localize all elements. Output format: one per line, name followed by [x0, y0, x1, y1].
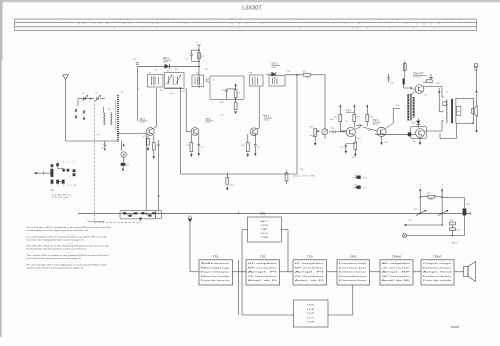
svg-text:7: 7	[63, 185, 64, 187]
svg-text:S2: S2	[167, 71, 169, 73]
transistor TS5	[377, 127, 386, 136]
svg-text:SK3: SK3	[466, 204, 470, 206]
wire TS4 base bias	[340, 128, 346, 131]
band switch SK1 breakout	[34, 163, 76, 184]
svg-text:The switch SK1 is drawn in the: The switch SK1 is drawn in the position …	[27, 254, 110, 257]
svg-text:LPD: LPD	[307, 305, 315, 307]
svg-text:R35: R35	[352, 157, 355, 159]
wire aux bus	[404, 224, 442, 227]
svg-text:TSP: TSP	[307, 313, 316, 315]
wire TS5 collector to driver transformer	[385, 109, 400, 130]
svg-text:2: 2	[57, 162, 58, 164]
wire in AGC box	[227, 89, 237, 100]
wire bus to lower box	[238, 213, 240, 260]
svg-text:S5: S5	[121, 92, 123, 94]
wire TS1 down to switch	[145, 134, 147, 211]
svg-text:C30: C30	[390, 83, 393, 85]
antenna	[63, 75, 69, 141]
svg-text:ZF-Verstärker: ZF-Verstärker	[248, 275, 278, 278]
note bracket	[88, 220, 104, 222]
svg-text:1: 1	[51, 162, 52, 164]
dial tick marks and numbers	[60, 18, 465, 30]
svg-text:R16: R16	[220, 102, 223, 104]
block connector wires	[233, 271, 464, 273]
svg-text:R40: R40	[436, 83, 439, 85]
svg-text:TS 1: TS 1	[140, 118, 146, 121]
volume control circle	[322, 129, 328, 139]
svg-text:Mengtrap: Mengtrap	[201, 266, 233, 269]
svg-text:Output stage: Output stage	[423, 262, 453, 265]
ferrite rod antenna	[116, 95, 118, 142]
switch label SK1	[50, 190, 55, 192]
electrolytic C16	[354, 174, 366, 180]
svg-text:C36: C36	[384, 142, 387, 144]
svg-text:Étage mélangeur: Étage mélangeur	[201, 271, 230, 274]
GR1 block box	[248, 217, 282, 242]
svg-text:R12: R12	[334, 117, 337, 119]
svg-text:Der Schalter SK1 ist in der St: Der Schalter SK1 ist in der Stellung FM …	[27, 245, 110, 248]
svg-text:R33: R33	[368, 130, 371, 132]
pickup socket	[402, 234, 406, 238]
svg-text:R44: R44	[429, 199, 432, 201]
svg-text:OA79: OA79	[272, 66, 277, 69]
ground trimmer C4	[83, 116, 86, 121]
label GR2 diode	[272, 63, 281, 69]
wire rod tap to TS1 base	[118, 133, 147, 135]
svg-text:TS 5: TS 5	[373, 119, 379, 122]
svg-text:C40: C40	[408, 220, 411, 222]
label TS3	[264, 115, 272, 121]
block TS2	[246, 255, 280, 285]
diode GR2	[266, 72, 276, 76]
svg-text:3: 3	[63, 162, 64, 164]
wire tone to switch	[442, 198, 464, 208]
svg-text:Paso de mezcla: Paso de mezcla	[201, 280, 232, 282]
svg-text:Demodulator: Demodulator	[339, 275, 368, 278]
label TRA66	[451, 325, 460, 329]
oscillator coil L2	[111, 113, 113, 126]
svg-text:gram. / P.U. 750: gram. / P.U. 750	[293, 176, 316, 178]
svg-text:Ampl. FI: Ampl. FI	[295, 271, 325, 274]
svg-text:R19: R19	[427, 193, 430, 195]
resistor R16	[403, 78, 405, 88]
resistor R6 TS3 emitter	[246, 134, 249, 157]
resistor R3 TS1 emitter	[147, 135, 150, 151]
svg-text:El conmutador SK1 está dibujad: El conmutador SK1 está dibujado en la po…	[27, 263, 108, 266]
resistor R5 TS2 emitter	[190, 134, 193, 157]
svg-text:Ampl. BF: Ampl. BF	[382, 271, 413, 274]
label TS2	[205, 118, 213, 124]
svg-text:C1: C1	[82, 93, 84, 95]
loudspeaker box	[456, 98, 474, 123]
svg-text:S9: S9	[175, 69, 177, 71]
wire transformer center tap	[438, 88, 444, 112]
capacitor C8 TS2 emitter	[198, 134, 201, 156]
svg-text:R46: R46	[412, 141, 415, 143]
svg-text:C5: C5	[101, 148, 103, 150]
wire osc branch	[121, 141, 124, 152]
resistor R8 below AGC box	[234, 102, 237, 114]
IF transformer T2	[165, 71, 185, 89]
svg-text:————: ————	[66, 252, 73, 254]
svg-text:R14: R14	[370, 117, 373, 119]
svg-text:desde la parte posterior del a: desde la parte posterior del aparato (vé…	[27, 266, 85, 269]
resistor R21	[450, 225, 460, 236]
capacitor C13 TS4 emitter	[340, 144, 356, 154]
svg-text:Détecteur: Détecteur	[339, 271, 368, 274]
svg-text:5: 5	[73, 162, 74, 164]
svg-text:AFC: AFC	[261, 220, 269, 223]
resistor R20	[450, 220, 456, 225]
svg-text:R24: R24	[230, 185, 233, 187]
wire volume feed	[324, 75, 326, 129]
brace coupling	[206, 78, 209, 83]
svg-text:Detector: Detector	[339, 279, 368, 282]
svg-text:R11: R11	[310, 127, 313, 129]
wire AGC return vertical	[296, 75, 298, 174]
svg-text:MF-versterker: MF-versterker	[295, 266, 325, 269]
wire pot wiper	[314, 131, 320, 146]
svg-text:TS4+5: TS4+5	[392, 255, 401, 259]
trimmer C4	[82, 110, 86, 114]
wire lower box right	[328, 285, 353, 315]
wire bias arrow TS6	[404, 87, 413, 89]
label GR1	[163, 57, 172, 63]
resistor R14	[366, 105, 373, 127]
svg-text:C21: C21	[182, 91, 185, 93]
driver transformer T7	[407, 94, 415, 121]
svg-text:C13: C13	[340, 147, 343, 149]
wire TS7 collector to transformer	[424, 121, 443, 132]
svg-text:NF-Verstärker: NF-Verstärker	[382, 275, 411, 278]
svg-text:————: ————	[66, 261, 73, 263]
svg-text:S15: S15	[270, 73, 273, 75]
loudspeaker icon	[472, 106, 478, 117]
svg-text:S20: S20	[396, 105, 399, 107]
label TS4	[346, 110, 354, 113]
svg-text:Detector: Detector	[339, 262, 368, 265]
switch block contact	[463, 208, 467, 235]
svg-text:C2: C2	[95, 93, 97, 95]
svg-text:2 x OC72: 2 x OC72	[413, 77, 421, 79]
variable capacitor C2	[95, 95, 101, 101]
switch note text	[52, 194, 73, 199]
electrolytic C15	[375, 132, 416, 136]
svg-text:6: 6	[57, 185, 58, 187]
svg-text:R26: R26	[306, 78, 309, 80]
svg-text:R7: R7	[238, 93, 240, 95]
svg-text:IF amplifier: IF amplifier	[295, 263, 325, 265]
svg-text:OC45: OC45	[205, 122, 210, 124]
tuning gang dashed linkage	[95, 100, 140, 223]
wire arrow feed 2	[441, 189, 443, 226]
transistor TS4	[346, 127, 355, 136]
svg-text:b: b	[442, 184, 443, 186]
switch pin numbers top	[51, 162, 74, 164]
wire TS4 to TS5	[355, 127, 377, 132]
wire antenna to ferrite rod	[66, 140, 120, 142]
svg-text:C18: C18	[457, 230, 460, 232]
svg-text:GR 2: GR 2	[272, 63, 278, 66]
wire TS6 collector loop	[423, 87, 443, 98]
svg-text:ZF-Verstärker: ZF-Verstärker	[295, 275, 325, 278]
svg-text:rear side of the apparatus (se: rear side of the apparatus (see also pag…	[27, 257, 83, 260]
wire detector output	[285, 74, 325, 76]
volume potentiometer R11	[310, 127, 320, 138]
svg-text:Ampl. de FI: Ampl. de FI	[295, 279, 325, 282]
svg-text:LLG: LLG	[307, 317, 315, 319]
svg-text:TS3: TS3	[307, 255, 313, 259]
svg-text:C28: C28	[300, 169, 303, 171]
diode GR3	[412, 119, 421, 128]
svg-text:4,7k: 4,7k	[186, 145, 190, 147]
wire TS3 collector	[257, 87, 259, 129]
svg-text:TS 4: TS 4	[346, 110, 352, 113]
svg-text:1k: 1k	[345, 121, 347, 123]
svg-text:OA79: OA79	[163, 60, 168, 63]
wire lower box left	[239, 260, 294, 315]
svg-text:C11: C11	[331, 128, 334, 130]
svg-text:S7: S7	[155, 70, 157, 72]
svg-text:0,1: 0,1	[143, 136, 146, 138]
IF transformer T5	[250, 75, 264, 86]
svg-text:C16: C16	[363, 178, 366, 180]
svg-text:0,1: 0,1	[258, 147, 261, 149]
block TS6+7	[421, 255, 454, 285]
transistor TS2	[191, 128, 199, 136]
svg-text:TS6+TS7: TS6+TS7	[413, 73, 424, 76]
svg-text:Ampl. FI: Ampl. FI	[248, 271, 278, 274]
svg-text:MF-versterker: MF-versterker	[248, 266, 278, 269]
label TS6 TS7	[413, 73, 428, 79]
label GR1 block	[260, 211, 266, 215]
transistor TS7	[416, 129, 425, 138]
resistor R17	[423, 78, 432, 84]
svg-text:R3: R3	[137, 89, 139, 91]
svg-text:CAP: CAP	[261, 228, 270, 231]
resistor R19 tone	[420, 193, 442, 198]
resistor R7 in AGC box	[234, 83, 240, 102]
svg-text:SK2: SK2	[414, 209, 417, 211]
AGC network box	[210, 76, 244, 99]
output transformer T8	[443, 99, 453, 124]
svg-text:————: ————	[66, 233, 73, 235]
svg-text:10: 10	[74, 185, 76, 187]
svg-text:TS1: TS1	[213, 255, 219, 259]
transistor TS3	[250, 128, 258, 136]
svg-text:GR1: GR1	[260, 211, 266, 215]
capacitor C7	[186, 50, 200, 61]
dial scale lines	[14, 19, 477, 31]
page edge top	[0, 0, 500, 2]
capacitor C5	[101, 141, 106, 150]
wire bias down to switch	[157, 140, 160, 210]
svg-text:OC45: OC45	[264, 119, 269, 121]
svg-text:TS 2: TS 2	[205, 118, 211, 121]
supply rail vertical	[196, 42, 201, 89]
svg-text:Eindversterker: Eindversterker	[423, 266, 452, 269]
svg-text:R12: R12	[126, 165, 129, 167]
wire TS6 base from transformer	[413, 89, 416, 90]
wire TS5 emitter	[380, 136, 383, 145]
capacitor C11 coupling	[329, 128, 347, 133]
svg-text:R8: R8	[205, 69, 207, 71]
fuse VL1	[403, 61, 406, 79]
wire AGC junction	[165, 87, 181, 174]
oscillator circle	[121, 152, 128, 163]
switch contact SK2b	[438, 210, 449, 216]
block speaker symbol	[464, 262, 476, 282]
capacitor C10 in AGC box	[222, 89, 228, 100]
svg-text:39p: 39p	[170, 93, 173, 95]
battery plug	[474, 64, 477, 70]
svg-text:Ampl. de BF: Ampl. de BF	[382, 279, 412, 282]
svg-text:C10: C10	[222, 90, 225, 92]
misc component labels	[82, 69, 470, 222]
svg-text:8: 8	[68, 185, 69, 187]
band switch assembly SK1 main	[120, 210, 165, 221]
svg-text:L3X30T: L3X30T	[242, 5, 262, 11]
svg-text:Le commutateur SK1 est dessiné: Le commutateur SK1 est dessiné dans la p…	[27, 235, 108, 238]
wire pickup	[407, 235, 465, 236]
wire right speaker connection	[475, 70, 478, 133]
block GR2	[337, 255, 370, 285]
svg-text:Rückseite des Gerätes gesehen: Rückseite des Gerätes gesehen (siehe auc…	[27, 248, 88, 251]
label schakelaar	[452, 242, 459, 244]
svg-text:LF-versterker: LF-versterker	[382, 266, 411, 269]
diode GR1	[165, 64, 170, 69]
svg-text:GR2: GR2	[350, 255, 357, 259]
svg-text:GR 1: GR 1	[163, 57, 169, 60]
wire TS2 base	[186, 88, 191, 132]
svg-text:S13: S13	[249, 73, 252, 75]
svg-text:S11: S11	[196, 73, 199, 75]
svg-text:b4x: b4x	[457, 111, 460, 113]
svg-text:R30: R30	[330, 119, 333, 121]
svg-text:R13: R13	[357, 117, 360, 119]
main bus wire	[78, 212, 471, 215]
page edge left	[0, 0, 2, 337]
transistor TS1	[146, 128, 154, 136]
ground trimmer C3	[75, 115, 78, 120]
wire TS7 emitter down	[419, 137, 422, 145]
svg-text:4,7k: 4,7k	[241, 145, 245, 147]
resistor R4	[152, 135, 155, 159]
resistor R2	[198, 53, 205, 59]
switch contact SK2a	[414, 209, 427, 216]
svg-text:l'arrière de l'appareil (voir: l'arrière de l'appareil (voir aussi page…	[27, 239, 86, 241]
svg-text:5: 5	[51, 185, 52, 187]
resistor R12	[334, 105, 342, 129]
svg-text:KLG: KLG	[261, 233, 269, 235]
capacitor C14	[387, 74, 390, 82]
svg-text:7.-10. Pos. gedr.: 7.-10. Pos. gedr.	[52, 197, 70, 199]
block TS4+5	[380, 255, 413, 285]
svg-text:S4: S4	[108, 109, 110, 111]
svg-text:R20: R20	[450, 220, 453, 222]
capacitor C12	[356, 124, 363, 126]
svg-text:achterzijde van het apparaat (: achterzijde van het apparaat (zie ook bl…	[27, 229, 90, 232]
svg-text:TS2: TS2	[260, 255, 266, 259]
svg-text:De schakelaar SK1 is getekend: De schakelaar SK1 is getekend in de stan…	[27, 226, 112, 229]
svg-text:OC44: OC44	[140, 122, 145, 124]
svg-text:LFB: LFB	[307, 309, 316, 311]
svg-text:AF amplifier: AF amplifier	[382, 262, 411, 265]
variable capacitor C1	[82, 95, 88, 101]
svg-text:Paso de salida: Paso de salida	[423, 280, 453, 282]
svg-text:HF amplifier: HF amplifier	[248, 263, 278, 265]
svg-text:0,1: 0,1	[201, 147, 204, 149]
resistor R15 TS4 emitter	[354, 136, 357, 157]
wire AGC rail top	[138, 66, 200, 121]
svg-text:R9: R9	[303, 72, 305, 74]
svg-text:Ampl. de FI: Ampl. de FI	[248, 279, 278, 282]
svg-text:C25: C25	[287, 71, 290, 73]
TS7 feedback loop	[410, 126, 426, 138]
wire tuning top	[78, 98, 105, 106]
svg-text:TS6+7: TS6+7	[433, 255, 442, 259]
trimmer C3	[74, 109, 78, 113]
block TS1	[199, 255, 233, 285]
svg-text:Mischstufe: Mischstufe	[201, 275, 232, 278]
svg-text:————: ————	[66, 243, 73, 245]
svg-text:Mixer: Mixer	[201, 263, 232, 265]
svg-text:9: 9	[71, 185, 72, 187]
svg-text:4: 4	[68, 162, 69, 164]
svg-text:C17: C17	[363, 188, 366, 190]
junction dots on bus	[146, 213, 240, 215]
resistor R18 vertical mid	[285, 170, 316, 184]
wire arrow feed 1	[419, 189, 421, 215]
wire GR1 left connector	[242, 230, 248, 315]
svg-text:Ampl. final: Ampl. final	[423, 271, 453, 274]
lower block box	[294, 300, 329, 327]
svg-text:GR3: GR3	[412, 123, 416, 125]
svg-text:S1: S1	[149, 73, 151, 75]
svg-text:TGM: TGM	[261, 237, 269, 239]
svg-text:AC126: AC126	[373, 122, 379, 125]
oscillator coil L1	[104, 107, 106, 125]
service notes text	[27, 226, 112, 269]
block antenna symbol	[188, 216, 199, 272]
svg-text:TRA66: TRA66	[451, 325, 460, 329]
capacitor C9 TS3 emitter	[254, 135, 257, 157]
label TS5	[373, 119, 381, 125]
capacitor C6	[133, 59, 139, 64]
detector transformer box	[269, 76, 285, 87]
ground symbol near TS6	[429, 74, 433, 80]
svg-text:Endverstärker: Endverstärker	[423, 275, 452, 278]
svg-text:C33: C33	[357, 138, 360, 140]
resistor R9	[303, 72, 311, 77]
electrolytic C17	[354, 184, 366, 190]
IF transformer T3	[192, 75, 204, 87]
svg-text:SK2 b-c: SK2 b-c	[452, 242, 459, 244]
svg-text:LFB: LFB	[261, 225, 270, 227]
resistor R1	[121, 163, 129, 171]
wire TS6 emitter	[395, 88, 416, 95]
svg-text:Detectie: Detectie	[339, 266, 370, 269]
svg-text:C14: C14	[160, 90, 163, 92]
block TS3	[293, 255, 327, 285]
svg-text:osc: osc	[97, 134, 100, 136]
resistor R13	[353, 105, 360, 128]
resistor R10 AGC filter	[226, 174, 229, 191]
label TS1	[140, 118, 148, 124]
wire AGC return horizontal	[181, 173, 297, 175]
switch pin numbers bottom	[51, 185, 76, 187]
svg-text:log: log	[310, 135, 313, 137]
